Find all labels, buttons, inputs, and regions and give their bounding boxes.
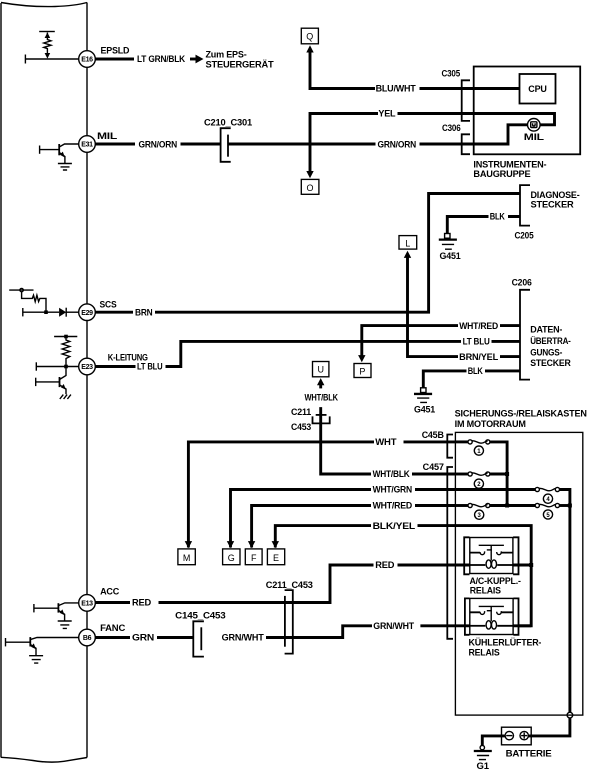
wire LT GRN/BLK from E16 bbox=[95, 58, 134, 61]
svg-text:L: L bbox=[405, 238, 410, 248]
ground G451 (lower) bbox=[414, 388, 435, 415]
svg-text:WHT/RED: WHT/RED bbox=[459, 321, 498, 331]
box U connector bbox=[313, 362, 329, 377]
pin B6 FANC bbox=[79, 629, 96, 646]
svg-text:GRN/ORN: GRN/ORN bbox=[378, 139, 417, 149]
wire RED from E13 bbox=[95, 601, 130, 604]
svg-text:KÜHLERLÜFTER-: KÜHLERLÜFTER- bbox=[469, 638, 542, 648]
transistor Q-mil base tick bbox=[39, 146, 41, 154]
transistor Q-mil base bar bbox=[58, 144, 60, 155]
connector C206 bracket bbox=[520, 290, 530, 380]
connector C145_C453 bracket bbox=[193, 621, 204, 656]
svg-text:EPSLD: EPSLD bbox=[101, 46, 130, 56]
svg-text:STEUERGERÄT: STEUERGERÄT bbox=[206, 59, 275, 69]
wire BLK/YEL inside box down to relays bbox=[455, 526, 531, 626]
SCS internal rail bbox=[9, 289, 33, 291]
svg-text:LT GRN/BLK: LT GRN/BLK bbox=[137, 54, 186, 64]
svg-text:C45B: C45B bbox=[422, 430, 445, 440]
svg-text:E31: E31 bbox=[81, 142, 93, 149]
resistor R-k vertical bbox=[62, 337, 70, 367]
pin E23 K-LEITUNG bbox=[79, 358, 96, 375]
svg-text:GRN/WHT: GRN/WHT bbox=[222, 633, 265, 643]
ground ACC bars bbox=[58, 621, 72, 628]
box P connector bbox=[354, 364, 371, 378]
instrument cluster box bbox=[474, 67, 581, 155]
svg-text:DIAGNOSE-: DIAGNOSE- bbox=[531, 190, 580, 200]
pin E16 EPSLD bbox=[79, 51, 96, 68]
wire YEL into instrument cluster bbox=[398, 114, 555, 125]
svg-text:C206: C206 bbox=[512, 278, 532, 288]
wire GRN/ORN to C210 bbox=[181, 143, 221, 146]
svg-text:SCS: SCS bbox=[100, 300, 117, 310]
wire BRN to diagnose connector bbox=[155, 194, 520, 313]
junction fuse3 row / bus bbox=[505, 504, 509, 508]
svg-text:CPU: CPU bbox=[528, 84, 546, 94]
wire RED into relay 1 bbox=[455, 564, 531, 567]
ground G451 (upper) bbox=[439, 234, 461, 261]
wire GRN/ORN into instrument cluster bbox=[420, 125, 528, 144]
wire/arrow up to Q bbox=[306, 45, 313, 52]
EPSLD internal arrow down to wire bbox=[45, 53, 51, 59]
ECU strip torn top edge bbox=[1, 3, 87, 7]
svg-text:INSTRUMENTEN-: INSTRUMENTEN- bbox=[473, 160, 546, 170]
wire GRN/ORN C210 to label2 bbox=[228, 143, 376, 146]
transistor Q-acc collector bbox=[58, 603, 78, 606]
wire WHT/BLK down to corner bbox=[321, 407, 371, 474]
svg-text:E23: E23 bbox=[81, 364, 93, 371]
wire/arrow up to L (BRN/YEL) bbox=[404, 251, 411, 258]
wire LT BLU from E23 bbox=[95, 365, 135, 368]
EPSLD internal pull-up rail bar bbox=[39, 31, 55, 33]
SCS wire tick bbox=[22, 308, 24, 316]
transistor Q-k emitter arrowhead bbox=[61, 384, 66, 390]
svg-text:P: P bbox=[359, 366, 365, 376]
junction K wire bbox=[64, 365, 68, 369]
svg-text:C145_C453: C145_C453 bbox=[175, 611, 225, 621]
connector C205 bracket bbox=[520, 185, 530, 226]
box Q connector bbox=[301, 28, 318, 44]
fuse 5 (WHT/RED row) bbox=[535, 503, 570, 519]
wire WHT/RED to C206 bbox=[500, 324, 520, 327]
svg-text:BLU/WHT: BLU/WHT bbox=[376, 84, 417, 94]
resistor R-scs path bbox=[22, 292, 46, 312]
transistor Q-fanc emitter arrowhead bbox=[31, 643, 36, 649]
svg-text:BAUGRUPPE: BAUGRUPPE bbox=[473, 169, 530, 179]
svg-text:STECKER: STECKER bbox=[531, 200, 575, 210]
junction SCS bbox=[44, 310, 48, 314]
transistor Q-k emitter bbox=[60, 385, 67, 394]
svg-text:IM MOTORRAUM: IM MOTORRAUM bbox=[455, 419, 526, 429]
wire GRN/ORN from E31 bbox=[95, 143, 135, 146]
CPU box bbox=[520, 74, 556, 104]
svg-text:C205: C205 bbox=[515, 231, 534, 241]
relay A/C KUPPL internals bbox=[464, 537, 518, 574]
svg-text:GUNGS-: GUNGS- bbox=[530, 348, 562, 358]
connector C305 bracket bbox=[462, 80, 470, 121]
wire GRN to C145 bbox=[157, 636, 193, 639]
svg-text:G451: G451 bbox=[440, 251, 461, 261]
svg-text:BRN: BRN bbox=[135, 307, 153, 317]
wire WHT/BLK to C457 bbox=[412, 473, 455, 476]
connector C211/C453 cup bbox=[313, 416, 330, 423]
arrow down into E bbox=[272, 541, 279, 548]
transistor Q-acc emitter bbox=[58, 610, 64, 620]
ECU strip left edge bbox=[0, 3, 2, 758]
svg-text:C453: C453 bbox=[291, 422, 311, 432]
transistor Q-k base bar bbox=[59, 377, 61, 387]
svg-text:WHT: WHT bbox=[375, 437, 397, 447]
svg-text:E: E bbox=[273, 553, 279, 563]
transistor Q-k collector bbox=[60, 367, 67, 380]
relay Kuehlerluefter internals bbox=[465, 598, 519, 634]
wire BRN/YEL to C206 bbox=[500, 355, 520, 358]
transistor Q-mil emitter arrowhead bbox=[60, 152, 65, 158]
ground G1 bbox=[474, 745, 492, 770]
svg-text:C305: C305 bbox=[442, 69, 461, 79]
svg-text:ACC: ACC bbox=[100, 586, 120, 596]
junction fuse5 / right bus bbox=[568, 504, 572, 508]
wire WHT/RED from corner to fusebox bbox=[252, 506, 456, 548]
svg-text:BLK: BLK bbox=[468, 366, 484, 376]
connector C211_C453 bracket bbox=[285, 590, 293, 654]
fuse 3 (WHT/RED) bbox=[455, 503, 535, 519]
svg-text:MIL: MIL bbox=[97, 131, 118, 141]
transistor Q-k base wire bbox=[36, 381, 60, 383]
svg-text:E29: E29 bbox=[81, 310, 93, 317]
svg-text:WHT/GRN: WHT/GRN bbox=[373, 485, 412, 495]
EPSLD internal arrow up bbox=[45, 33, 51, 39]
svg-text:RELAIS: RELAIS bbox=[469, 648, 500, 658]
svg-text:GRN/WHT: GRN/WHT bbox=[373, 621, 414, 631]
svg-text:G: G bbox=[228, 553, 235, 563]
connector C211_C453 bar bbox=[284, 596, 286, 647]
svg-text:LT BLU: LT BLU bbox=[463, 337, 490, 347]
connector C211/C453 (vertical) bar bbox=[316, 414, 327, 416]
transistor Q-acc base wire bbox=[34, 607, 59, 609]
svg-text:F: F bbox=[251, 553, 257, 563]
connector C145_C453 bar bbox=[200, 627, 202, 650]
svg-text:DATEN-: DATEN- bbox=[530, 325, 562, 335]
SCS rail node circle bbox=[20, 288, 23, 291]
transistor Q-fanc collector bbox=[30, 638, 78, 640]
diode D-scs bbox=[59, 308, 66, 317]
wire BLK to C206 bbox=[423, 371, 520, 388]
svg-text:LT BLU: LT BLU bbox=[137, 362, 163, 372]
ground FANC bars bbox=[29, 656, 43, 663]
svg-text:M: M bbox=[183, 553, 191, 563]
transistor Q-fanc emitter bbox=[30, 644, 36, 655]
wire RED to corner and up into fusebox bbox=[159, 565, 456, 603]
K wire tick bbox=[35, 362, 37, 370]
arrow down into M bbox=[185, 541, 192, 548]
box G connector bbox=[223, 549, 240, 565]
wire GRN/WHT step up bbox=[266, 626, 455, 638]
svg-text:C211: C211 bbox=[291, 407, 311, 417]
wire WHT/GRN from corner to fusebox bbox=[231, 490, 456, 548]
svg-text:BATTERIE: BATTERIE bbox=[506, 749, 552, 759]
transistor Q-acc base tick bbox=[33, 604, 35, 612]
arrow down into F bbox=[248, 541, 255, 548]
ECU strip torn bottom edge bbox=[1, 757, 87, 762]
wire WHT/RED with arrow down to P bbox=[358, 355, 365, 362]
connector C45B bracket bbox=[447, 435, 453, 458]
transistor Q-fanc base wire bbox=[6, 641, 31, 643]
svg-text:FANC: FANC bbox=[100, 623, 126, 633]
wire battery minus to G1 bbox=[482, 736, 501, 746]
SCS diode to pin bbox=[66, 311, 79, 313]
K-LEITUNG internal rail bar bbox=[54, 336, 77, 338]
transistor Q-acc base bar bbox=[57, 603, 59, 612]
fuse/relay box bbox=[455, 432, 582, 715]
wire GRN from B6 bbox=[95, 636, 130, 639]
svg-text:C457: C457 bbox=[423, 462, 444, 472]
fuse 2 (WHT/BLK) bbox=[455, 472, 507, 488]
svg-text:WHT/BLK: WHT/BLK bbox=[305, 392, 339, 402]
battery minus terminal bbox=[505, 731, 513, 739]
transistor Q-fanc base bar bbox=[29, 637, 31, 646]
EPSLD terminal tick bbox=[24, 55, 26, 64]
wire BRN from E29 bbox=[95, 311, 133, 314]
wire BLK/YEL from corner to fusebox bbox=[275, 526, 455, 548]
transistor Q-fanc base tick bbox=[5, 638, 7, 646]
lamp MIL bbox=[528, 119, 541, 132]
svg-text:ÜBERTRA-: ÜBERTRA- bbox=[530, 336, 571, 346]
svg-text:Zum EPS-: Zum EPS- bbox=[206, 50, 247, 60]
box L connector bbox=[399, 236, 417, 250]
svg-text:G451: G451 bbox=[414, 404, 435, 414]
battery box bbox=[502, 727, 532, 745]
K wire to pin bbox=[36, 366, 78, 368]
svg-text:E16: E16 bbox=[81, 57, 93, 64]
wire WHT from corner to fusebox bbox=[188, 442, 455, 548]
battery plus terminal bbox=[520, 731, 528, 739]
SCS wire to diode bbox=[23, 311, 59, 313]
svg-text:BLK: BLK bbox=[490, 212, 506, 222]
transistor Q-acc emitter arrowhead bbox=[60, 609, 65, 615]
svg-text:C211_C453: C211_C453 bbox=[266, 580, 313, 590]
svg-text:MIL: MIL bbox=[524, 132, 545, 142]
wire LT BLU to C206 bbox=[166, 341, 521, 366]
svg-text:U: U bbox=[317, 365, 324, 375]
connector C457 bracket bbox=[447, 467, 453, 639]
svg-text:RELAIS: RELAIS bbox=[470, 586, 501, 596]
transistor Q-k base tick bbox=[35, 378, 37, 386]
chassis ground K hatches bbox=[60, 395, 71, 399]
box O connector bbox=[301, 179, 319, 194]
connector C210_C301 bar bbox=[227, 135, 229, 157]
wire BLK to C205 bbox=[447, 217, 520, 234]
transistor Q-mil base wire bbox=[40, 149, 60, 151]
svg-text:SICHERUNGS-/RELAISKASTEN: SICHERUNGS-/RELAISKASTEN bbox=[455, 408, 587, 418]
connector C210_C301 bracket bbox=[221, 128, 231, 162]
ground MIL bars bbox=[58, 164, 72, 171]
wire/arrow up to U (WHT/BLK) bbox=[317, 378, 324, 385]
arrow to EPS control unit bbox=[190, 58, 197, 61]
wire BLU/WHT to CPU bbox=[420, 87, 520, 90]
svg-text:YEL: YEL bbox=[378, 109, 396, 119]
connector C306 bracket bbox=[462, 134, 470, 154]
svg-text:C210_C301: C210_C301 bbox=[204, 117, 252, 127]
node at box bottom edge bbox=[567, 712, 573, 718]
wire GRN/WHT into relay 2 bbox=[455, 624, 531, 627]
junction fuse2/bus bbox=[505, 472, 509, 476]
fuse 1 (WHT) bbox=[455, 440, 507, 506]
wire/arrow down to O bbox=[306, 171, 313, 178]
box F connector bbox=[245, 549, 262, 565]
pin E29 SCS bbox=[79, 304, 96, 321]
box M connector bbox=[178, 549, 195, 565]
svg-text:STECKER: STECKER bbox=[530, 358, 571, 368]
svg-text:WHT/BLK: WHT/BLK bbox=[373, 469, 411, 479]
svg-text:WHT/RED: WHT/RED bbox=[373, 501, 413, 511]
battery terminal stubs bbox=[502, 734, 532, 737]
resistor R-epsld bbox=[44, 33, 51, 54]
svg-text:GRN: GRN bbox=[132, 633, 154, 643]
svg-text:E13: E13 bbox=[81, 601, 93, 608]
transistor Q-mil collector bbox=[59, 144, 78, 147]
arrow down into G bbox=[227, 541, 234, 548]
pin E31 MIL bbox=[79, 136, 96, 153]
svg-text:A/C-KUPPL.-: A/C-KUPPL.- bbox=[470, 576, 521, 586]
svg-text:B6: B6 bbox=[83, 635, 92, 642]
svg-text:BLK/YEL: BLK/YEL bbox=[373, 521, 416, 531]
box E connector bbox=[267, 549, 284, 565]
ECU strip right edge segments bbox=[86, 3, 88, 758]
svg-text:G1: G1 bbox=[477, 761, 490, 771]
junction K rail bbox=[64, 335, 68, 339]
svg-text:GRN/ORN: GRN/ORN bbox=[139, 139, 178, 149]
fuse 4 (WHT/GRN) bbox=[455, 487, 570, 505]
bus down to battery bbox=[531, 506, 570, 736]
transistor Q-mil emitter bbox=[59, 153, 65, 164]
EPSLD internal wire to pin bbox=[25, 58, 78, 60]
junction BLK/YEL / relay1 bbox=[529, 563, 533, 567]
svg-text:RED: RED bbox=[132, 598, 152, 608]
svg-text:BRN/YEL: BRN/YEL bbox=[459, 352, 499, 362]
svg-text:C306: C306 bbox=[442, 123, 461, 133]
svg-text:O: O bbox=[306, 183, 313, 193]
pin E13 ACC bbox=[79, 595, 96, 612]
svg-text:RED: RED bbox=[375, 560, 395, 570]
svg-text:Q: Q bbox=[306, 32, 313, 42]
